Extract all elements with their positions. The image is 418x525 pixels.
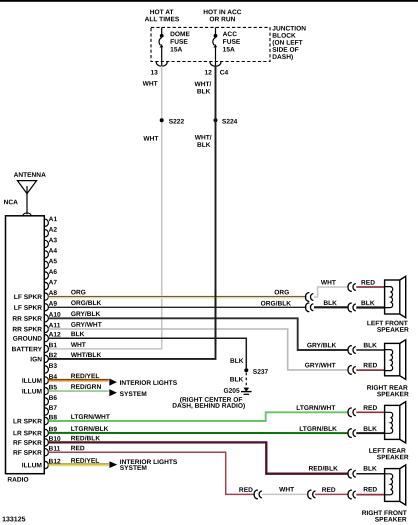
svg-text:WHT: WHT (71, 342, 86, 349)
radio pin A2 cavity (45, 227, 57, 237)
svg-text:C4: C4 (220, 70, 229, 77)
top border line (0, 0, 418, 2)
svg-text:ILLUM: ILLUM (22, 378, 43, 385)
svg-text:RED: RED (363, 405, 377, 412)
wire WHT segment (right front -) (262, 493, 307, 495)
radio pin A1 cavity (45, 216, 57, 226)
svg-text:LTGRN/WHT: LTGRN/WHT (296, 405, 335, 412)
svg-text:BLK: BLK (71, 331, 85, 338)
wire RED segment before third connector (315, 493, 348, 495)
svg-text:DASH): DASH) (272, 54, 293, 61)
svg-text:S224: S224 (222, 119, 238, 126)
radio pin B8 cavity (45, 414, 57, 424)
wire RED into right rear speaker - (356, 369, 384, 371)
radio pin A5 cavity (45, 258, 57, 268)
svg-text:RED: RED (363, 486, 377, 493)
svg-text:12: 12 (204, 70, 212, 77)
svg-text:B2: B2 (49, 352, 58, 359)
svg-text:133125: 133125 (2, 516, 25, 523)
inline connector on WHT/RED wire (348, 283, 356, 292)
inline connector on LTGRNBLK/BLK wire (348, 429, 356, 438)
svg-text:WHT/: WHT/ (195, 135, 212, 142)
svg-text:DOME: DOME (170, 31, 190, 38)
label LEFT REAR SPEAKER (369, 448, 409, 462)
radio pin B5 cavity (45, 384, 57, 394)
radio pin B6 cavity (45, 395, 57, 405)
label DOME FUSE 15A (170, 31, 190, 53)
svg-text:GRY/BLK: GRY/BLK (71, 311, 101, 318)
wire BLK into left rear speaker - (356, 432, 384, 434)
svg-text:A1: A1 (49, 216, 58, 223)
svg-text:ORG: ORG (71, 289, 86, 296)
svg-text:BLK: BLK (197, 89, 211, 96)
wire BLK into right rear speaker + (356, 349, 384, 351)
svg-text:SPEAKER: SPEAKER (377, 327, 409, 334)
splice S237 (244, 368, 248, 372)
connector C4 cavity at pin 13 (156, 62, 167, 66)
svg-text:RED/GRN: RED/GRN (71, 384, 102, 391)
svg-text:A7: A7 (49, 279, 58, 286)
svg-text:RF SPKR: RF SPKR (13, 450, 42, 457)
wire RED into left front speaker + (356, 286, 384, 288)
svg-text:LR SPKR: LR SPKR (13, 430, 42, 437)
radio pin A4 cavity (45, 248, 57, 258)
svg-text:BLK: BLK (363, 426, 377, 433)
svg-text:B6: B6 (49, 395, 58, 402)
wire WHT/BLK vertical overlay (continuity at crossings) (215, 290, 217, 345)
svg-text:B7: B7 (49, 405, 58, 412)
svg-text:DASH, BEHIND RADIO): DASH, BEHIND RADIO) (172, 403, 245, 410)
svg-text:15A: 15A (170, 46, 182, 53)
arrow to interior lights (B12) (109, 461, 117, 468)
inline connector on LTGRNWHT/RED wire (348, 408, 356, 417)
svg-text:ANTENNA: ANTENNA (14, 172, 46, 179)
svg-text:(ON LEFT: (ON LEFT (272, 40, 302, 47)
inline connector on GRYBLK/BLK wire (348, 346, 356, 355)
svg-text:ACC: ACC (223, 31, 238, 38)
radio pin B10 cavity (45, 436, 61, 446)
wire RED/BLK radio B10 to right front speaker (48, 442, 348, 473)
svg-text:BLOCK: BLOCK (272, 33, 296, 40)
svg-text:GRY/WHT: GRY/WHT (71, 322, 102, 329)
svg-text:LTGRN/BLK: LTGRN/BLK (299, 426, 337, 433)
svg-text:ALL TIMES: ALL TIMES (145, 16, 180, 23)
svg-text:JUNCTION: JUNCTION (272, 26, 306, 33)
radio box (6, 216, 45, 474)
svg-text:ILLUM: ILLUM (22, 462, 43, 469)
svg-text:S222: S222 (169, 118, 185, 125)
inline connector on RED/RED wire (third) (348, 490, 356, 499)
svg-text:RR SPKR: RR SPKR (12, 326, 42, 333)
svg-text:A3: A3 (49, 237, 58, 244)
svg-text:BLK: BLK (363, 466, 377, 473)
label LEFT FRONT SPEAKER (367, 320, 409, 334)
svg-text:WHT: WHT (143, 136, 158, 143)
svg-text:A2: A2 (49, 227, 58, 234)
svg-text:FUSE: FUSE (170, 39, 188, 46)
svg-text:WHT: WHT (321, 280, 336, 287)
svg-text:B1: B1 (49, 342, 58, 349)
label RIGHT REAR SPEAKER (367, 385, 409, 399)
svg-text:BLK: BLK (363, 342, 377, 349)
antenna connector cavity on radio top (23, 213, 31, 216)
svg-text:BLK: BLK (230, 377, 244, 384)
wire RED/YEL radio B12 to interior lights (48, 464, 109, 466)
svg-text:RED: RED (363, 362, 377, 369)
label ACC FUSE 15A (223, 31, 241, 53)
radio pin B9 cavity (45, 426, 57, 436)
svg-text:BLK: BLK (361, 300, 375, 307)
svg-text:LR SPKR: LR SPKR (13, 418, 42, 425)
splice S224 (214, 118, 218, 122)
label HOT IN ACC OR RUN (203, 9, 241, 23)
wire LTGRN/BLK radio B9 to left rear speaker (48, 432, 348, 434)
inline connector on GRYWHT/RED wire (348, 366, 356, 375)
svg-text:RED: RED (361, 280, 375, 287)
svg-text:LTGRN/WHT: LTGRN/WHT (71, 414, 110, 421)
speaker RIGHT FRONT SPEAKER (385, 465, 406, 505)
speaker RIGHT REAR SPEAKER (385, 340, 406, 380)
wire RED/YEL radio B4 to interior lights (48, 379, 108, 381)
svg-text:13: 13 (150, 69, 158, 76)
svg-text:WHT: WHT (143, 81, 158, 88)
wire ORG/BLK radio A9 to connector (48, 306, 306, 308)
svg-text:RED/BLK: RED/BLK (71, 435, 101, 442)
svg-text:RED/BLK: RED/BLK (309, 466, 339, 473)
svg-text:SPEAKER: SPEAKER (375, 516, 407, 523)
wire WHT/BLK from fuse 12 down to radio B2 (48, 66, 215, 359)
wire RED radio B11 to connector (48, 452, 253, 494)
svg-text:LF SPKR: LF SPKR (14, 294, 42, 301)
svg-text:OR RUN: OR RUN (209, 16, 235, 23)
radio pin A11 cavity (45, 322, 61, 332)
svg-text:G205: G205 (223, 388, 239, 395)
label JUNCTION BLOCK (ON LEFT SIDE OF DASH) (272, 26, 306, 61)
svg-text:RF SPKR: RF SPKR (13, 440, 42, 447)
radio pin B7 cavity (45, 405, 57, 415)
svg-text:RED: RED (239, 487, 253, 494)
radio pin A6 cavity (45, 269, 57, 279)
label WHT/BLK (above S224) (195, 81, 212, 95)
splice S222 (160, 118, 164, 122)
svg-text:HOT IN ACC: HOT IN ACC (203, 9, 241, 16)
fuse ACC FUSE 15A (symbol) (213, 27, 218, 65)
svg-text:WHT: WHT (279, 486, 294, 493)
wire BLK connector to connector (left front speaker -) (314, 306, 348, 308)
ground G205 symbol (241, 388, 252, 394)
wire ORG radio A8 to connector (48, 295, 306, 298)
svg-text:ILLUM: ILLUM (22, 389, 43, 396)
svg-text:RED/YEL: RED/YEL (71, 458, 100, 465)
svg-text:RED: RED (322, 487, 336, 494)
speaker LEFT FRONT SPEAKER (385, 276, 406, 317)
svg-text:RED: RED (71, 445, 85, 452)
fuse DOME FUSE 15A (symbol) (159, 27, 164, 65)
svg-text:FUSE: FUSE (223, 39, 241, 46)
svg-text:LF SPKR: LF SPKR (14, 305, 42, 312)
wire WHT jog connector to connector (left front speaker feed) (314, 287, 348, 297)
svg-text:RED/YEL: RED/YEL (71, 373, 100, 380)
label RIGHT FRONT SPEAKER (362, 510, 407, 524)
radio pin B3 cavity (45, 363, 57, 373)
wire WHT from fuse 13 down to radio B1 (vertical) (48, 66, 161, 349)
svg-text:B3: B3 (49, 363, 58, 370)
inline connector on BLK/BLK wire (left front -) (348, 303, 356, 312)
wire RED/GRN radio B5 to interior lights (48, 390, 108, 392)
svg-text:SYSTEM: SYSTEM (120, 391, 148, 398)
radio pin A9 cavity (45, 301, 57, 311)
svg-text:15A: 15A (223, 47, 235, 54)
svg-text:SYSTEM: SYSTEM (120, 465, 148, 472)
svg-text:ORG: ORG (274, 289, 289, 296)
inline connector on REDBLK/BLK wire (348, 469, 356, 478)
svg-text:INTERIOR LIGHTS: INTERIOR LIGHTS (120, 380, 178, 387)
radio pin B11 cavity (45, 446, 61, 456)
svg-text:HOT AT: HOT AT (150, 9, 174, 16)
wire GRY/BLK radio A10 to right rear speaker branch (48, 318, 348, 350)
inline connector on ORG/WHT wire (305, 293, 313, 302)
wire RED into right front speaker - (356, 494, 384, 496)
svg-text:BLK: BLK (197, 142, 211, 149)
svg-text:RR SPKR: RR SPKR (12, 316, 42, 323)
svg-text:ORG/BLK: ORG/BLK (71, 300, 102, 307)
junction block dashed box (151, 27, 270, 61)
radio pin A7 cavity (45, 279, 57, 289)
radio pin A12 cavity (45, 332, 61, 342)
wire BLK S237 to ground (dashed) (245, 373, 247, 388)
radio pin B2 cavity (45, 352, 57, 362)
label (RIGHT CENTER OF DASH, BEHIND RADIO) (172, 397, 245, 410)
antenna symbol (17, 181, 36, 215)
svg-text:A9: A9 (49, 301, 58, 308)
svg-text:A6: A6 (49, 269, 58, 276)
svg-text:GRY/BLK: GRY/BLK (307, 342, 337, 349)
inline connector on WHT/RED wire (second) (308, 490, 316, 499)
speaker LEFT REAR SPEAKER (385, 402, 406, 443)
svg-text:NCA: NCA (4, 199, 19, 206)
radio pin B1 cavity (45, 342, 57, 352)
svg-text:BLK: BLK (230, 358, 244, 365)
svg-text:LTGRN/BLK: LTGRN/BLK (71, 426, 109, 433)
wire RED into left rear speaker + (356, 411, 384, 413)
arrow to interior lights (B5) (109, 389, 117, 396)
svg-text:A4: A4 (49, 248, 58, 255)
svg-text:WHT/: WHT/ (195, 81, 212, 88)
svg-text:ORG/BLK: ORG/BLK (261, 301, 292, 308)
label WHT/BLK (below S224) (195, 135, 212, 149)
svg-text:SPEAKER: SPEAKER (377, 391, 409, 398)
wire LTGRN/WHT radio B8 to left rear speaker (48, 412, 348, 421)
radio pin A3 cavity (45, 237, 57, 247)
inline connector on RED/WHT wire (first) (254, 490, 262, 499)
inline connector on ORG-BLK/BLK wire (305, 303, 313, 312)
radio pin A10 cavity (45, 312, 61, 322)
label HOT AT ALL TIMES (145, 9, 180, 23)
arrow to interior lights (B4) (109, 379, 117, 386)
wire GRY/WHT radio A11 to right rear speaker branch (48, 329, 348, 370)
radio pin B12 cavity (45, 458, 61, 468)
wire BLK into right front speaker + (356, 473, 384, 475)
radio pin B4 cavity (45, 374, 57, 384)
wire BLK into left front speaker - (356, 306, 384, 308)
svg-text:A5: A5 (49, 258, 58, 265)
svg-text:WHT/BLK: WHT/BLK (71, 352, 102, 359)
wire BLK radio A12 ground lead (48, 338, 246, 368)
connector C4 cavity at pin 12 (210, 62, 221, 66)
svg-text:IGN: IGN (30, 356, 42, 363)
radio pin A8 cavity (45, 290, 57, 300)
svg-text:GRY/WHT: GRY/WHT (305, 362, 336, 369)
svg-text:GROUND: GROUND (13, 336, 43, 343)
svg-text:SIDE OF: SIDE OF (272, 47, 298, 54)
svg-text:BATTERY: BATTERY (12, 346, 43, 353)
svg-text:S237: S237 (253, 369, 269, 376)
svg-text:BLK: BLK (323, 300, 337, 307)
svg-text:SPEAKER: SPEAKER (377, 454, 409, 461)
svg-text:RADIO: RADIO (7, 477, 28, 484)
